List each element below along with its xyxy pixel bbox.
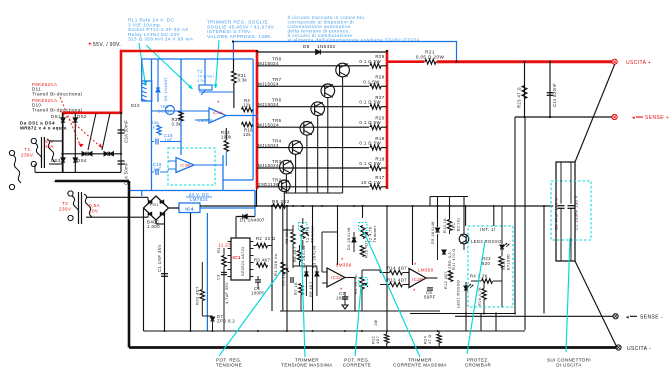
- svg-text:BC161: BC161: [457, 217, 461, 231]
- svg-text:R11 470 Ω: R11 470 Ω: [452, 248, 456, 270]
- svg-text:LM7824: LM7824: [190, 197, 208, 202]
- svg-text:VALORE APPROSS. 138K.: VALORE APPROSS. 138K.: [207, 34, 273, 39]
- svg-text:IC2B: IC2B: [412, 277, 423, 282]
- svg-text:2SD1138: 2SD1138: [258, 182, 279, 187]
- svg-text:47 Ω: 47 Ω: [428, 334, 432, 344]
- svg-text:TENSIONE MASSIMA: TENSIONE MASSIMA: [281, 363, 332, 368]
- svg-text:CORRENTE: CORRENTE: [343, 363, 371, 368]
- svg-text:MJ15024: MJ15024: [258, 143, 279, 148]
- svg-text:R1: R1: [216, 247, 221, 253]
- svg-text:LED2 ROSSO: LED2 ROSSO: [471, 239, 502, 244]
- svg-text:R30 4Ω7: R30 4Ω7: [195, 286, 200, 305]
- svg-text:CORRENTE MASSIMA: CORRENTE MASSIMA: [393, 363, 447, 368]
- svg-text:1uF: 1uF: [153, 167, 161, 172]
- svg-text:323 Ω 358 mH 24 V 60 mA: 323 Ω 358 mH 24 V 60 mA: [128, 37, 194, 42]
- svg-text:3.3k: 3.3k: [172, 122, 182, 127]
- svg-text:USCITA -: USCITA -: [627, 346, 651, 352]
- svg-text:100Pf: 100Pf: [251, 291, 264, 296]
- svg-text:TENSIONE: TENSIONE: [216, 363, 242, 368]
- svg-text:12k: 12k: [243, 132, 251, 137]
- svg-text:R2: R2: [256, 236, 262, 241]
- svg-text:0.1 Ω 5W: 0.1 Ω 5W: [359, 141, 381, 146]
- svg-text:Transil Bi-directional: Transil Bi-directional: [32, 91, 82, 96]
- svg-text:IC3A: IC3A: [213, 110, 224, 115]
- svg-text:R10 1K: R10 1K: [443, 218, 447, 233]
- svg-text:LM358: LM358: [336, 263, 352, 268]
- svg-text:R24: R24: [424, 336, 428, 344]
- svg-text:MJ15024: MJ15024: [258, 61, 279, 66]
- svg-text:0,5A: 0,5A: [89, 203, 101, 208]
- svg-text:CROWBAR: CROWBAR: [465, 363, 492, 368]
- svg-text:R3 4K7: R3 4K7: [254, 258, 271, 263]
- svg-text:DS4: DS4: [77, 158, 87, 163]
- svg-text:D4 1N4148: D4 1N4148: [347, 227, 351, 250]
- svg-text:*: *: [413, 289, 416, 295]
- svg-text:D1 1N4007: D1 1N4007: [240, 218, 265, 223]
- svg-text:C3 47uF 100 V.: C3 47uF 100 V.: [554, 197, 559, 230]
- svg-text:MJ15024: MJ15024: [258, 82, 279, 87]
- svg-text:D10: D10: [131, 103, 140, 108]
- svg-text:C3: C3: [217, 274, 221, 280]
- svg-text:R9 2K2: R9 2K2: [272, 199, 290, 204]
- svg-text:R12 4Ω7: R12 4Ω7: [444, 271, 448, 289]
- svg-text:MJ15024: MJ15024: [258, 163, 279, 168]
- svg-text:*: *: [341, 258, 344, 264]
- svg-text:MJ15024: MJ15024: [258, 102, 279, 107]
- svg-text:47K: 47K: [197, 78, 205, 83]
- svg-text:4Ω7: 4Ω7: [376, 336, 380, 344]
- svg-text:0,05 Ω 20W: 0,05 Ω 20W: [416, 55, 445, 60]
- svg-text:R8 4K7: R8 4K7: [292, 246, 297, 262]
- svg-text:C2A 50mF: C2A 50mF: [124, 120, 129, 143]
- svg-text:D2 1N4148: D2 1N4148: [302, 245, 306, 268]
- svg-text:0.1 Ω 5W: 0.1 Ω 5W: [359, 59, 381, 64]
- svg-text:IC1: IC1: [233, 255, 241, 260]
- svg-text:PS1: PS1: [150, 202, 159, 207]
- svg-text:D5 1N4148: D5 1N4148: [431, 221, 435, 244]
- svg-text:230V.: 230V.: [21, 153, 35, 158]
- svg-text:SENSE -: SENSE -: [640, 315, 663, 321]
- svg-text:DS3: DS3: [51, 158, 61, 163]
- svg-text:*: *: [217, 101, 220, 107]
- svg-text:SCR1: SCR1: [502, 258, 506, 270]
- svg-text:1k: 1k: [151, 125, 156, 130]
- svg-text:C2 100nF 100 V: C2 100nF 100 V: [574, 195, 579, 230]
- svg-text:BT169D: BT169D: [507, 254, 511, 270]
- svg-text:◄: ◄: [631, 115, 636, 120]
- svg-text:820: 820: [482, 261, 490, 266]
- svg-text:R7 1K: R7 1K: [293, 282, 298, 295]
- svg-text:LED1 ROSSO: LED1 ROSSO: [457, 280, 461, 308]
- svg-text:55V. / 99V.: 55V. / 99V.: [93, 42, 121, 48]
- svg-text:MJ15024: MJ15024: [258, 122, 279, 127]
- svg-text:0.1 5W.: 0.1 5W.: [363, 79, 381, 84]
- svg-text:10 Ω 1W: 10 Ω 1W: [361, 180, 381, 185]
- svg-text:R16 4,7K: R16 4,7K: [478, 287, 482, 306]
- svg-text:22 Ω: 22 Ω: [265, 236, 276, 241]
- svg-text:56PF: 56PF: [424, 295, 436, 300]
- svg-text:USCITA +: USCITA +: [626, 60, 651, 66]
- svg-text:–: –: [53, 179, 57, 185]
- svg-text:230V: 230V: [59, 207, 72, 212]
- svg-text:T2: T2: [62, 201, 68, 206]
- svg-text:0.1 Ω 5W: 0.1 Ω 5W: [359, 161, 381, 166]
- svg-text:TR1: TR1: [452, 223, 456, 231]
- svg-text:C11 820nF: C11 820nF: [552, 83, 557, 107]
- svg-text:SENSE +: SENSE +: [645, 115, 669, 121]
- svg-text:D9 1N4007: D9 1N4007: [163, 77, 168, 101]
- svg-text:MR872 x 4 o equiv.: MR872 x 4 o equiv.: [20, 126, 68, 131]
- svg-text:*: *: [414, 263, 417, 269]
- svg-text:R23 47 Ω: R23 47 Ω: [517, 87, 522, 108]
- svg-text:SG3524 uA723: SG3524 uA723: [241, 247, 245, 276]
- svg-text:R6 4K7: R6 4K7: [308, 281, 313, 297]
- svg-text:1W: 1W: [374, 319, 378, 326]
- svg-text:IC4: IC4: [185, 207, 193, 212]
- svg-text:1N5402: 1N5402: [317, 44, 336, 49]
- svg-text:Trimmer: Trimmer: [372, 225, 377, 243]
- svg-text:35A: 35A: [44, 144, 54, 149]
- svg-text:12k: 12k: [243, 103, 251, 108]
- svg-text:D8: D8: [303, 44, 310, 49]
- svg-text:100Pf: 100Pf: [336, 296, 349, 301]
- svg-text:LM358: LM358: [418, 268, 434, 273]
- svg-text:C1 1mF 35V.: C1 1mF 35V.: [157, 243, 162, 272]
- svg-text:Trimmer: Trimmer: [310, 225, 315, 243]
- svg-text:0.1 Ω 5W: 0.1 Ω 5W: [359, 100, 381, 105]
- svg-text:DS2: DS2: [77, 114, 87, 119]
- svg-text:D3 1N4148: D3 1N4148: [313, 245, 317, 268]
- svg-text:3.3k: 3.3k: [238, 78, 248, 83]
- svg-text:0.1 Ω 5W: 0.1 Ω 5W: [359, 120, 381, 125]
- svg-text:11.23: 11.23: [218, 243, 231, 248]
- svg-text:4,7uF 35V: 4,7uF 35V: [224, 282, 229, 304]
- svg-text:IC2A: IC2A: [331, 275, 342, 280]
- svg-text:INT. 1/: INT. 1/: [480, 227, 496, 232]
- svg-text:+: +: [88, 41, 92, 48]
- svg-text:DI USCITA: DI USCITA: [556, 363, 582, 368]
- svg-text:IC3B: IC3B: [180, 163, 191, 168]
- svg-text:Transil Bi-directional: Transil Bi-directional: [32, 107, 82, 112]
- svg-text:◄: ◄: [625, 314, 630, 319]
- svg-text:1.000: 1.000: [147, 224, 160, 229]
- svg-text:20V: 20V: [89, 209, 99, 214]
- svg-text:R22: R22: [372, 336, 376, 344]
- svg-text:ZPD 8.2: ZPD 8.2: [217, 319, 235, 324]
- svg-text:R1 50K lin: R1 50K lin: [273, 254, 278, 276]
- svg-text:T1: T1: [24, 147, 30, 152]
- svg-text:DS1: DS1: [51, 114, 61, 119]
